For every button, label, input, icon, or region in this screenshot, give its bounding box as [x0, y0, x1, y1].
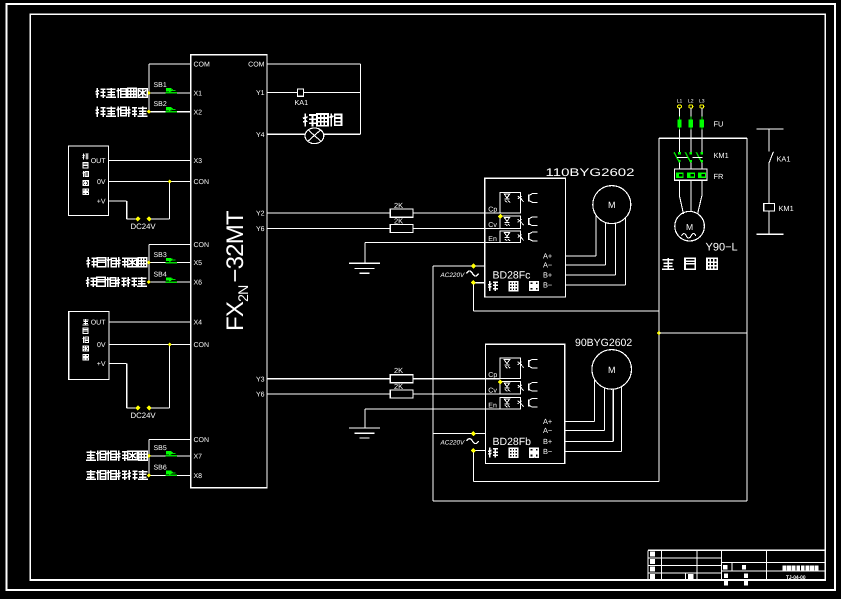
wire Cv interior: [485, 227, 500, 229]
title block cell glyphs: [723, 565, 727, 570]
node DC24V terminal left: [135, 216, 140, 221]
wires driver2 to motor2: [565, 421, 595, 423]
svg-text:KA1: KA1: [295, 98, 309, 107]
resistor 2K (Y6): [390, 224, 413, 232]
fuses FU: [679, 117, 681, 130]
wire Cv interior: [486, 393, 501, 395]
svg-text:DC24V: DC24V: [131, 222, 157, 231]
node SB3 tap: [147, 261, 151, 265]
svg-text:BD28Fb: BD28Fb: [493, 436, 532, 448]
svg-text:SB5: SB5: [154, 445, 167, 452]
pushbutton SB3: [166, 258, 178, 263]
svg-text:KA1: KA1: [777, 155, 791, 164]
svg-text:X3: X3: [194, 158, 203, 165]
svg-text:SB3: SB3: [154, 252, 167, 259]
pushbutton SB6: [166, 471, 178, 476]
svg-text:OUT: OUT: [91, 319, 107, 326]
pushbutton SB5: [166, 451, 178, 456]
label song-biao-ji-gou-qi-dong (labeller start): [86, 451, 96, 460]
label fu-ya-ji-gou-ting-zhi (press stop): [86, 277, 96, 287]
wire AC stubs: [475, 433, 485, 435]
wire 0V to PLC CON: [109, 344, 191, 346]
label song-biao-ji-gou-ting-zhi (labeller stop): [86, 470, 96, 479]
wire: [768, 211, 770, 234]
optocoupler Cp: [500, 358, 521, 379]
wire AC left rail vertical: [432, 266, 434, 501]
svg-text:SB1: SB1: [154, 82, 167, 89]
svg-text:BD28Fc: BD28Fc: [493, 270, 531, 282]
optocoupler En: [500, 231, 521, 243]
AC220V terminal top: [471, 431, 476, 436]
svg-text:X7: X7: [194, 453, 203, 460]
svg-text:COM: COM: [248, 62, 265, 69]
sensor vertical label: [83, 319, 89, 325]
svg-text:Y2: Y2: [256, 211, 265, 218]
svg-text:0V: 0V: [97, 179, 106, 186]
wire main box top edge: [659, 137, 747, 139]
AC220V terminal bottom: [471, 448, 476, 453]
wire AC bottom rail: [433, 500, 747, 502]
optocoupler Cv: [500, 216, 521, 229]
wire AC to driver2 top: [433, 433, 472, 435]
control branch bottom bar: [756, 233, 783, 235]
ground (driver1 En): [349, 262, 380, 264]
svg-text:COM: COM: [194, 62, 211, 69]
wire right loop vertical: [360, 64, 362, 134]
wire main box right edge: [746, 138, 748, 501]
node SB2 tap: [147, 110, 151, 114]
svg-text:X8: X8: [194, 473, 203, 480]
KM1 linkage dashes: [677, 156, 687, 158]
wire COM left rail group1: [149, 63, 191, 65]
wires KM1 to FR: [679, 163, 681, 170]
svg-text:Y6: Y6: [256, 392, 265, 399]
svg-text:L3: L3: [699, 99, 705, 105]
wire CON left rail group4: [149, 439, 191, 441]
wire SB1 row: [149, 92, 191, 94]
svg-text:A+: A+: [543, 417, 552, 426]
wire Y1 row: [267, 91, 361, 93]
svg-text:Y90−L: Y90−L: [706, 242, 738, 254]
wires FR to motor: [679, 180, 681, 196]
wire SB2 row: [149, 111, 191, 113]
optocoupler En: [500, 397, 521, 409]
svg-text:A−: A−: [543, 261, 552, 270]
svg-text:B+: B+: [543, 271, 552, 280]
label zhu-dian-lu (main circuit): [662, 258, 674, 269]
svg-text:B−: B−: [543, 447, 552, 456]
title block grid: [648, 549, 825, 551]
svg-text:X1: X1: [194, 91, 203, 98]
stepper driver BD28Fb body: [486, 344, 565, 463]
svg-text:X4: X4: [194, 320, 203, 327]
wire: [768, 129, 770, 152]
svg-text:M: M: [686, 222, 693, 232]
svg-text:2K: 2K: [394, 216, 403, 225]
FR elements: [676, 173, 679, 178]
svg-text:B+: B+: [543, 437, 552, 446]
phase terminals: [678, 105, 682, 108]
phase wires: [679, 108, 681, 152]
svg-text:M: M: [608, 200, 616, 210]
svg-text:FU: FU: [714, 120, 724, 129]
svg-text:TJ-04-00: TJ-04-00: [786, 575, 806, 581]
svg-text:CON: CON: [194, 437, 210, 444]
svg-text:110BYG2602: 110BYG2602: [546, 167, 635, 179]
coil KM1: [764, 203, 775, 211]
title block tiny row labels: [650, 552, 655, 557]
node DC24V terminal right: [147, 405, 152, 410]
wire DC24V to 0V junction: [151, 218, 170, 220]
svg-text:2K: 2K: [394, 366, 403, 375]
wire En interior: [485, 242, 500, 244]
svg-text:A−: A−: [543, 426, 552, 435]
label bao-jing-deng (alarm lamp): [303, 113, 316, 126]
motor M2 90BYG2602: [592, 350, 632, 390]
PLC FX2N-32MT body: [191, 55, 267, 488]
wire 0V to PLC CON: [109, 181, 191, 183]
svg-text:SB6: SB6: [154, 465, 167, 472]
svg-text:M: M: [608, 365, 616, 375]
svg-text:L2: L2: [688, 99, 694, 105]
wire AC to driver1 top: [433, 265, 472, 267]
svg-text:A+: A+: [543, 252, 552, 261]
svg-text:KM1: KM1: [779, 204, 794, 213]
label qu-dong-qi (driver): [488, 448, 498, 458]
resistor 2K (Y2): [390, 209, 413, 217]
svg-text:Y4: Y4: [256, 132, 265, 139]
svg-text:2K: 2K: [394, 201, 403, 210]
stepper driver BD28Fc body: [485, 178, 566, 297]
wire Y4 row: [267, 133, 361, 135]
AC tilde symbol: [467, 271, 479, 276]
svg-text:L1: L1: [677, 99, 683, 105]
svg-text:X5: X5: [194, 260, 203, 267]
node DC24V terminal right: [147, 216, 152, 221]
wire Y3 row: [267, 378, 390, 380]
motor M1 110BYG2602: [593, 186, 631, 224]
svg-text:2K: 2K: [394, 382, 403, 391]
svg-text:CON: CON: [194, 242, 210, 249]
sensor box: [69, 312, 109, 380]
svg-text:B−: B−: [543, 281, 552, 290]
label qu-dong-qi (driver): [488, 281, 498, 291]
resistor 2K (Y3): [390, 375, 413, 383]
AC220V terminal top: [471, 263, 476, 268]
svg-text:Y3: Y3: [256, 376, 265, 383]
wire +V to DC24V: [109, 200, 127, 202]
pushbutton SB4: [166, 277, 178, 282]
svg-text:X6: X6: [194, 280, 203, 287]
wire junction to right rail: [659, 332, 747, 334]
wire SB6 row: [149, 474, 191, 476]
label chuan-song-dai-ting-zhi (conveyor stop): [96, 107, 106, 117]
svg-text:AC220V: AC220V: [440, 440, 466, 447]
sensor vertical label: [83, 153, 89, 159]
AC220V terminal bottom: [471, 280, 476, 285]
wire En2 to ground: [365, 408, 486, 410]
svg-text:90BYG2602: 90BYG2602: [575, 337, 632, 349]
wire Y6 row: [267, 227, 390, 229]
contactor contacts KM1: [674, 152, 680, 162]
node SB6 tap: [147, 473, 151, 477]
sensor box: [68, 146, 108, 216]
node DC24V terminal left: [135, 405, 140, 410]
optocoupler Cp: [500, 193, 521, 214]
svg-text:OUT: OUT: [91, 158, 107, 165]
svg-text:KM1: KM1: [714, 151, 729, 160]
wire CON left rail group2: [149, 244, 191, 246]
svg-text:AC220V: AC220V: [440, 272, 466, 279]
svg-text:FX2N−32MT: FX2N−32MT: [222, 210, 251, 331]
svg-text:Y1: Y1: [256, 90, 265, 97]
wire +V to DC24V: [109, 363, 127, 365]
wire SB5 row: [149, 455, 191, 457]
svg-text:Y6: Y6: [256, 226, 265, 233]
wire AC stubs: [475, 265, 485, 267]
svg-text:X2: X2: [194, 109, 203, 116]
svg-text:0V: 0V: [97, 342, 106, 349]
wire Cp interior: [486, 378, 501, 380]
node SB1 tap: [147, 91, 151, 95]
svg-text:SB4: SB4: [154, 271, 167, 278]
node main junction: [657, 331, 661, 335]
wire SB4 row: [149, 281, 191, 283]
svg-text:FR: FR: [714, 172, 724, 181]
wire En interior: [486, 408, 501, 410]
svg-text:+V: +V: [97, 198, 106, 205]
alarm lamp (circle with X): [305, 128, 324, 144]
thermal relay FR box: [675, 169, 708, 180]
node SB4 tap: [147, 280, 151, 284]
wire SB3 row: [149, 262, 191, 264]
title text dian-qi-kong-zhi-yuan-li-tu (smudge): [783, 565, 787, 570]
pushbutton SB2: [166, 107, 178, 112]
node 0V junction: [168, 342, 172, 346]
wire Cp interior: [485, 212, 500, 214]
wires driver1 to motor1: [565, 255, 595, 257]
wire Y2 row: [267, 212, 390, 214]
wire En1 to ground: [365, 242, 485, 244]
contact KA1: [769, 152, 774, 163]
resistor 2K (Y6b): [390, 390, 413, 398]
ground (driver2 En): [349, 427, 380, 429]
node opto junction: [498, 379, 503, 384]
label fu-ya-ji-gou-qi-dong (press start): [86, 257, 96, 267]
wire OUT to PLC: [109, 321, 191, 323]
node SB5 tap: [147, 454, 151, 458]
svg-text:CON: CON: [194, 179, 210, 186]
main motor Y90-L: [675, 211, 705, 241]
svg-text:SB2: SB2: [154, 101, 167, 108]
label chuan-song-dai-qi-dong (conveyor start): [96, 88, 106, 98]
wire main box left edge / riser: [658, 138, 660, 481]
wire driver2 AC return: [472, 452, 474, 481]
control branch top bar: [756, 128, 783, 130]
wire: [768, 163, 770, 203]
pushbutton SB1: [166, 88, 178, 93]
wire DC24V to 0V junction: [151, 407, 170, 409]
wire driver1 AC return: [472, 285, 474, 312]
svg-text:DC24V: DC24V: [131, 411, 157, 420]
wire COM right: [267, 63, 361, 65]
optocoupler Cv: [500, 381, 521, 394]
AC tilde symbol: [467, 439, 479, 444]
wire Y6b row: [267, 393, 390, 395]
node opto junction: [498, 214, 503, 219]
node 0V junction: [168, 179, 172, 183]
relay coil KA1: [298, 89, 304, 96]
wire OUT to PLC: [109, 160, 191, 162]
svg-text:CON: CON: [194, 342, 210, 349]
svg-text:+V: +V: [97, 361, 106, 368]
